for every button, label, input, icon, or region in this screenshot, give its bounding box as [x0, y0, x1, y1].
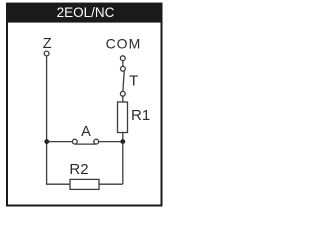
junction left node: [44, 139, 49, 144]
terminal Z: [44, 51, 49, 56]
wire switch to R1: [122, 96, 124, 102]
resistor R2: [70, 179, 99, 189]
svg-text:2EOL/NC: 2EOL/NC: [57, 5, 115, 20]
svg-text:R1: R1: [131, 107, 150, 124]
frame border: [7, 4, 162, 206]
connector A right contact: [94, 139, 99, 144]
wire R1 to node: [122, 133, 124, 142]
svg-text:COM: COM: [106, 36, 142, 52]
terminal COM: [120, 56, 125, 61]
switch T lower contact: [120, 91, 125, 96]
wire COM to switch: [122, 61, 124, 67]
switch T upper contact: [121, 66, 126, 71]
wire Z vertical: [46, 56, 48, 184]
resistor R1: [118, 102, 128, 133]
wire right vertical down: [122, 142, 124, 185]
svg-text:R2: R2: [69, 161, 88, 178]
switch T lever: [123, 71, 124, 91]
title bar: [6, 3, 163, 23]
svg-text:A: A: [81, 124, 91, 140]
wire bottom left segment: [47, 183, 70, 186]
wire A right: [99, 141, 123, 143]
connector A shorting bar: [75, 143, 96, 145]
wire A left: [47, 141, 73, 143]
svg-text:T: T: [129, 73, 138, 90]
junction right node: [120, 139, 125, 144]
connector A left contact: [72, 139, 77, 144]
wire bottom right segment: [99, 183, 123, 185]
svg-text:Z: Z: [43, 36, 52, 52]
